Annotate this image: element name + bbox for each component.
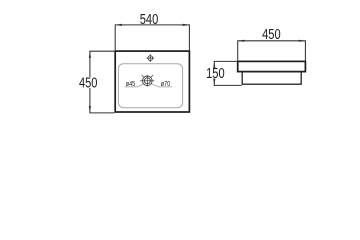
svg-text:ø70: ø70 (161, 80, 171, 88)
svg-text:450: 450 (262, 25, 281, 42)
svg-text:450: 450 (79, 74, 98, 91)
svg-text:540: 540 (140, 10, 159, 27)
svg-text:150: 150 (206, 64, 225, 81)
svg-text:ø45: ø45 (126, 80, 136, 88)
